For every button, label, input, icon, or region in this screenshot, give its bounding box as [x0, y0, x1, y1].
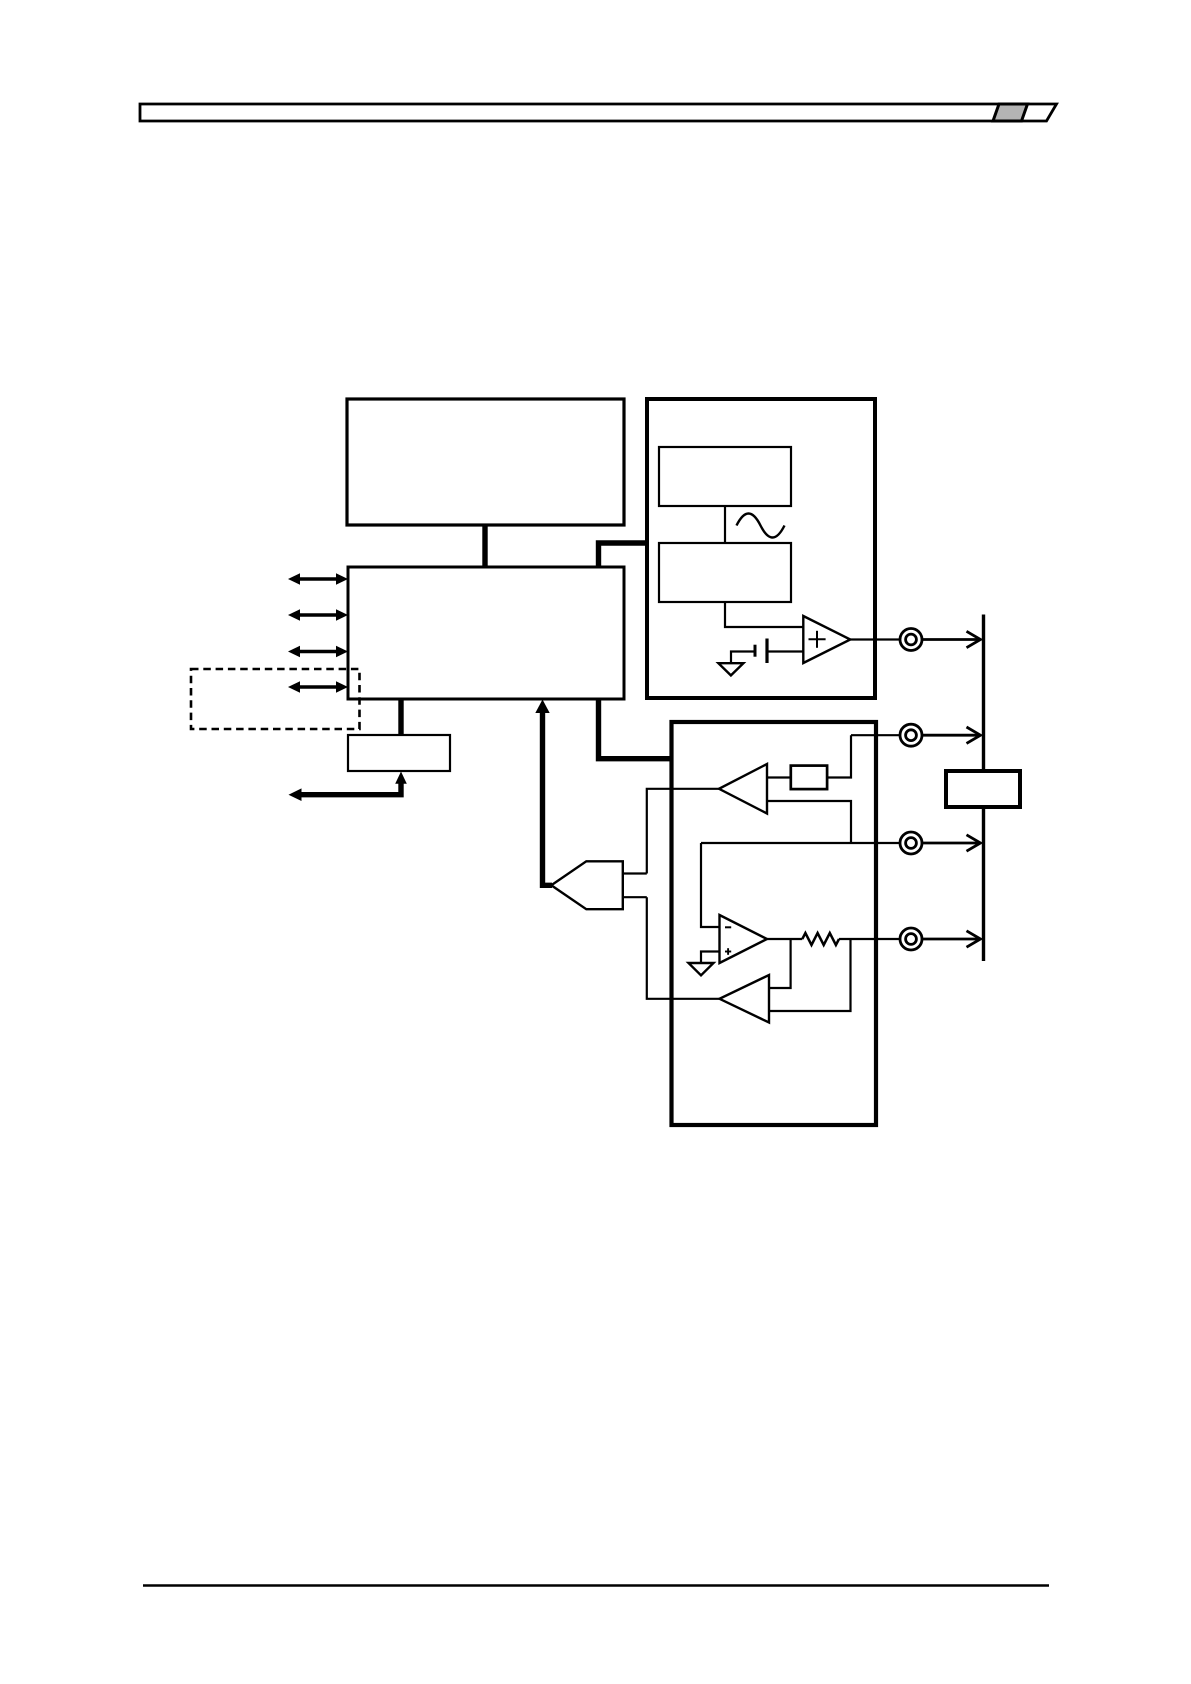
footer rule: [143, 1584, 1049, 1587]
resistor R2 zigzag: [802, 933, 839, 945]
port arrow P3: [288, 646, 348, 658]
port arrow P4: [288, 681, 348, 693]
wire R2 to J4: [839, 938, 900, 940]
block U2 control logic: [348, 567, 624, 699]
bus wire T1: [482, 525, 487, 567]
bus bar: [982, 615, 985, 962]
wire mux stub lower: [623, 896, 647, 898]
wire mux stub upper: [623, 872, 647, 874]
port arrow P1: [288, 573, 348, 585]
wire U4B output: [767, 938, 802, 940]
connector J2: [900, 724, 922, 746]
sine wave symbol: [737, 514, 785, 538]
connector J4: [900, 928, 922, 950]
bus arrow T6: [289, 772, 407, 802]
mux M1: [551, 861, 623, 909]
arrow J3 to bus: [922, 835, 980, 851]
bus wire T2: [599, 543, 648, 567]
bus wire T5: [398, 699, 403, 735]
wire U4A apex left: [647, 789, 719, 874]
wire buffer U4A input: [767, 776, 791, 778]
wire B to amp: [725, 602, 803, 627]
wire R1 to J2 riser: [827, 735, 851, 777]
bus wire T3: [599, 699, 672, 759]
wire feedback rail: [701, 842, 900, 844]
block U4 lower-right analog: [672, 722, 877, 1125]
buffer U4C: [720, 975, 770, 1023]
resistor R1 box: [791, 766, 827, 790]
wire to connector J2: [851, 734, 900, 736]
arrow J2 to bus: [922, 727, 981, 743]
block U3 top-right analog: [647, 399, 875, 698]
bus arrow T4 up: [535, 700, 552, 886]
arrow J4 to bus: [922, 931, 980, 947]
wire feedback tap 2: [769, 939, 851, 1011]
buffer U4A: [719, 764, 767, 814]
inner block B: [659, 543, 791, 602]
block U1 top-left: [347, 399, 624, 525]
op-amp U4B: [720, 915, 768, 963]
connector J1: [900, 629, 922, 651]
small block S: [348, 735, 450, 771]
connector J3: [900, 832, 922, 854]
inner block A: [659, 447, 791, 506]
battery B1: [731, 639, 803, 664]
wire feedback tap 1: [769, 939, 791, 988]
arrow J1 to bus: [922, 631, 980, 647]
wire amp U3A output: [850, 638, 900, 640]
header banner: [140, 104, 1057, 121]
port arrow P2: [288, 609, 348, 621]
op-amp U3A: [803, 616, 850, 663]
ground G2: [689, 963, 714, 975]
wire non-inverting to ground: [701, 952, 720, 964]
wire A-B link: [724, 506, 726, 543]
ground G1: [718, 663, 743, 675]
wire inverting input: [701, 843, 720, 927]
dashed option box: [191, 669, 360, 729]
wire U4A lower input: [767, 801, 851, 843]
bus block: [946, 771, 1020, 807]
wire U4C apex left: [647, 897, 720, 999]
